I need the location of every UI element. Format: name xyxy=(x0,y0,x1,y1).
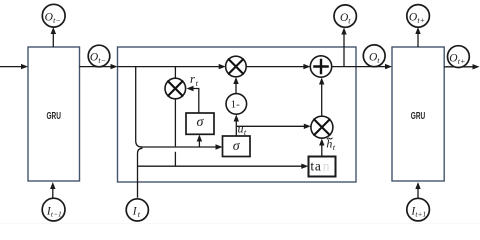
wire: 1- circle up to multiply2 xyxy=(233,77,238,94)
svg-text:t+: t+ xyxy=(417,16,425,25)
svg-text:u: u xyxy=(238,122,244,136)
wire: h branch down from main line with elbow to sigma feed xyxy=(136,67,142,147)
node circle O_t-1 on left wire xyxy=(88,45,110,67)
wire: main line down into multiply1 top xyxy=(174,67,176,79)
circle I_t bottom middle xyxy=(126,199,148,221)
wire: u_t branch right to multiply3 xyxy=(236,124,310,129)
wire: main horizontal h line inside cell xyxy=(118,64,226,69)
GRU cell middle (container box) xyxy=(118,47,357,182)
circle 1- (one minus) xyxy=(226,94,247,115)
multiplier circle X1 (reset gating) xyxy=(165,78,186,99)
svg-text:GRU: GRU xyxy=(46,111,61,122)
wire: arrow up from left GRU to O_t-1 circle xyxy=(51,27,56,47)
svg-text:n: n xyxy=(323,159,330,174)
multiplier circle X2 (on main wire) xyxy=(226,56,247,77)
label u_t xyxy=(238,122,247,138)
wire: multiply3 up to plus xyxy=(319,78,324,117)
svg-text:t+1: t+1 xyxy=(415,210,426,219)
wire: arrow up from I_t-1 circle to left GRU xyxy=(50,182,55,198)
wire: left GRU to middle cell (h state) xyxy=(80,64,118,69)
svg-text:ta: ta xyxy=(310,159,321,174)
svg-text:r: r xyxy=(190,72,195,86)
wire: up-branch arrow into sigma1 bottom xyxy=(197,135,202,148)
wire: multiply1 bottom down to tanh feed line xyxy=(174,99,176,166)
sigma box 1 (reset gate) xyxy=(186,113,214,134)
circle O_t top middle xyxy=(334,5,356,27)
label r_t xyxy=(190,72,199,88)
svg-text:t+: t+ xyxy=(458,57,466,66)
wire: tanh box up to multiply3 xyxy=(319,139,324,157)
sigma box 2 (update gate) xyxy=(223,136,251,157)
faint bottom hairline xyxy=(0,223,480,225)
svg-text:σ: σ xyxy=(233,139,241,154)
circle O_t+1 top right xyxy=(407,5,430,28)
wire: r_t from sigma1 top to multiply1 xyxy=(187,86,199,113)
svg-text:t−: t− xyxy=(98,56,106,65)
circle I_t-1 bottom left xyxy=(42,198,65,221)
svg-text:GRU: GRU xyxy=(411,111,426,122)
GRU block left (box) xyxy=(28,47,80,181)
GRU block right (box) xyxy=(392,47,444,181)
node circle O_t+1 on right output wire xyxy=(448,46,470,68)
label h~_t xyxy=(326,136,335,152)
tanh box xyxy=(309,157,336,177)
wire: branch up from main wire to O_t top circle xyxy=(341,28,346,67)
node circle O_t on wire between cell and right GRU xyxy=(363,45,385,67)
wire: u_t from sigma2 top to 1- circle xyxy=(234,115,239,137)
wire: multiply2 to plus xyxy=(246,64,310,69)
wire: sigma feed horizontal line to sigma2 xyxy=(141,144,223,149)
svg-text:t−: t− xyxy=(53,16,61,25)
multiplier circle X3 (candidate gating) xyxy=(311,116,333,138)
adder circle plus xyxy=(310,56,331,77)
wire: arrow up from I_t+1 circle to right GRU xyxy=(415,182,420,198)
svg-text:σ: σ xyxy=(197,115,205,130)
circle I_t+1 bottom right xyxy=(407,198,430,221)
circle O_t-1 top left xyxy=(42,4,65,27)
wire: plus out to right GRU xyxy=(332,64,392,69)
svg-text:1-: 1- xyxy=(231,99,241,111)
wire: tanh feed horizontal line (from I_t junction) xyxy=(138,164,309,169)
wire: right GRU output to edge xyxy=(444,64,479,69)
svg-text:t−1: t−1 xyxy=(51,210,62,219)
wire: external input into left GRU xyxy=(0,64,28,69)
wire: arrow up from right GRU to O_t+1 circle xyxy=(415,27,420,47)
wire: I_t input vertical into cell xyxy=(138,148,143,198)
